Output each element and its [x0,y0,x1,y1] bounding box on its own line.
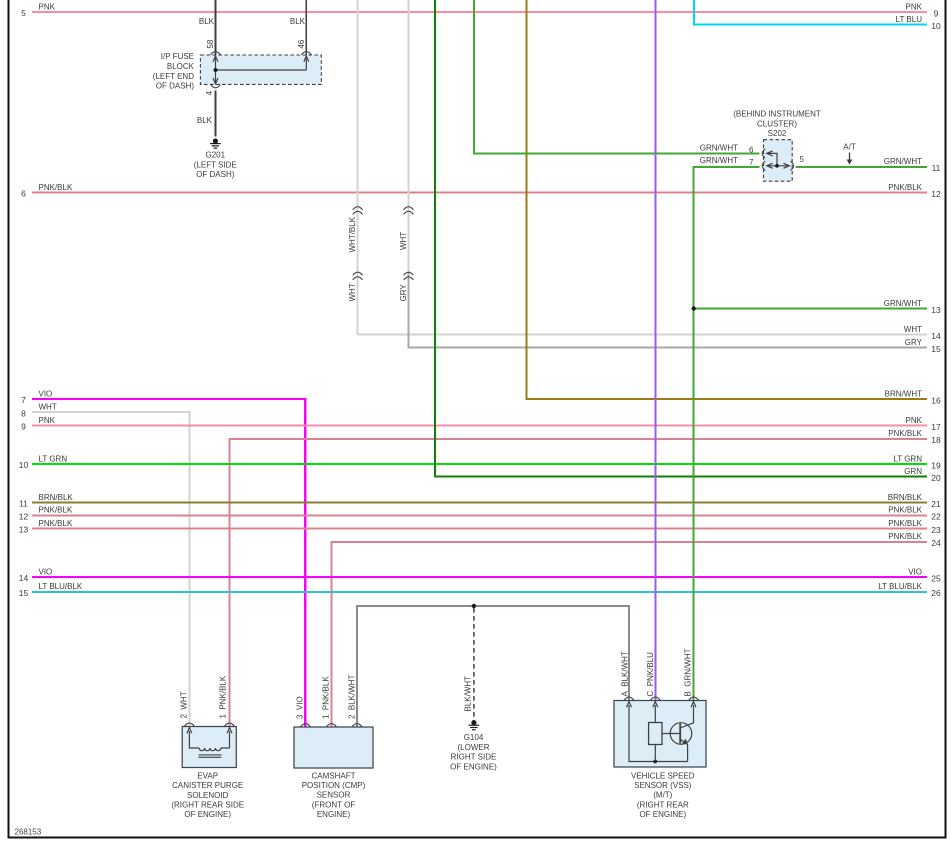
node 7 number left [21,395,26,405]
svg-text:A/T: A/T [843,143,856,152]
node 9 label left [39,416,56,425]
VSS label line 3 [653,791,672,800]
inline connector WHT upper [404,207,414,215]
VSS label line 2 [634,781,692,790]
svg-text:WHT: WHT [904,325,922,334]
node 9 number left [21,422,26,432]
wire 15-26 LT BLU/BLK [32,591,927,593]
node 23 number right [931,525,941,535]
svg-text:GRN/WHT: GRN/WHT [884,299,922,308]
ground G104 label line 2 [458,743,490,752]
node 13 number right [931,305,941,315]
fuse block pin 46 connector [301,52,311,55]
ground G104 label line 3 [451,753,497,762]
label BLK wire 46 [290,17,306,26]
svg-text:PNK/BLK: PNK/BLK [888,532,922,541]
wire 10-19 LT GRN [32,463,927,465]
wire BLK/WHT dashed to G104 [473,608,475,719]
CMP pin 2 connector [352,724,362,727]
node 12 label left [39,506,73,515]
node 6 number left [21,189,26,199]
svg-text:BLK: BLK [197,116,213,125]
VSS pin B label [684,648,693,696]
EVAP solenoid coil [199,748,221,751]
node 5 number left [21,8,26,18]
diagram number 268153 [15,828,42,837]
fuse block label line 2 [167,62,195,71]
fuse block pin 4 label [205,90,214,95]
G104 BLK/WHT label [463,676,472,712]
svg-text:VEHICLE SPEED: VEHICLE SPEED [631,771,695,780]
svg-text:15: 15 [931,344,941,354]
node 15 number right [931,344,941,354]
wire BLK to G201 [215,91,217,137]
svg-text:BLK: BLK [290,17,306,26]
wire 13-23 PNK/BLK [32,528,927,530]
EVAP label line 5 [184,810,231,819]
wire 14-25 VIO [32,576,927,578]
fuse block pin 4 connector [211,85,221,88]
svg-text:G201: G201 [206,151,226,160]
label WHT lower [348,283,357,301]
ground G104 symbol [469,720,480,730]
svg-text:7: 7 [21,395,26,405]
VSS box [614,701,706,768]
node 9 label right [906,2,923,11]
fuse block pin 4 arrow [213,78,218,84]
wire 18 PNK/BLK from EVAP pin 1 [230,439,928,727]
svg-text:PNK/BLK: PNK/BLK [39,506,73,515]
wire 16 BRN/WHT [527,0,927,399]
CMP label line 2 [302,781,366,790]
border bottom [8,837,947,839]
svg-text:S202: S202 [768,129,787,138]
svg-text:SENSOR: SENSOR [317,791,351,800]
ground G104 label line 1 [464,733,484,742]
transistor base bar [679,724,681,744]
wire PNK/BLU to VSS pin C [654,0,656,700]
svg-text:12: 12 [931,189,941,199]
svg-text:CAMSHAFT: CAMSHAFT [312,771,356,780]
wire GRN/WHT to S202 pin 6 [474,0,759,153]
VSS pin B connector [689,697,699,700]
node 25 number right [931,573,941,583]
svg-text:OF ENGINE): OF ENGINE) [450,762,497,771]
svg-text:3 VIO: 3 VIO [295,696,304,719]
EVAP label line 3 [187,791,229,800]
node 14 label left [39,567,53,576]
svg-text:PNK/BLK: PNK/BLK [888,429,922,438]
border right [945,0,947,839]
inline connector GRY lower [404,272,414,280]
svg-text:5: 5 [21,8,26,18]
fuse block pin 58 label [206,39,215,48]
ground G201 label line 3 [196,170,235,179]
svg-text:(LEFT END: (LEFT END [153,72,194,81]
svg-text:C PNK/BLU: C PNK/BLU [646,652,655,697]
svg-text:268153: 268153 [15,828,42,837]
node 8 label left [39,403,57,412]
ground G104 label line 4 [450,762,497,771]
svg-text:(BEHIND INSTRUMENT: (BEHIND INSTRUMENT [733,110,821,119]
svg-text:22: 22 [931,512,941,522]
transistor Q VSS circle [670,723,692,745]
node 15 label left [39,582,83,591]
svg-text:(LOWER: (LOWER [458,743,490,752]
svg-text:LT BLU: LT BLU [896,15,923,24]
node 21 label right [888,493,923,502]
svg-text:WHT: WHT [348,283,357,301]
svg-text:VIO: VIO [908,567,922,576]
node 18 number right [931,435,941,445]
node 20 label right [904,467,922,476]
svg-text:ENGINE): ENGINE) [317,810,351,819]
svg-text:1 PNK/BLK: 1 PNK/BLK [321,676,330,719]
junction node wire 13 [692,306,696,310]
node 8 number left [21,408,26,418]
svg-text:PNK/BLK: PNK/BLK [888,506,922,515]
svg-text:G104: G104 [464,733,484,742]
svg-text:LT BLU/BLK: LT BLU/BLK [878,582,922,591]
node 16 number right [931,395,941,405]
wire 6-12 PNK/BLK [32,192,927,194]
svg-text:PNK/BLK: PNK/BLK [888,183,922,192]
svg-text:8: 8 [21,408,26,418]
svg-text:2 WHT: 2 WHT [179,691,188,718]
wire BLK/WHT CMP pin 2 to VSS pin A [357,606,629,727]
label GRN/WHT pin 7 [700,156,738,165]
CMP label line 5 [317,810,351,819]
svg-text:11: 11 [19,499,28,509]
fuse block label line 1 [161,52,194,61]
label BLK G201 [197,116,213,125]
svg-text:9: 9 [934,8,939,18]
svg-text:15: 15 [19,588,29,598]
svg-text:(LEFT SIDE: (LEFT SIDE [194,160,237,169]
svg-text:CANISTER PURGE: CANISTER PURGE [172,781,243,790]
svg-text:I/P FUSE: I/P FUSE [161,52,194,61]
svg-text:CLUSTER): CLUSTER) [757,119,797,128]
CMP sensor box [294,727,373,768]
svg-text:WHT: WHT [39,403,57,412]
svg-text:PNK/BLK: PNK/BLK [888,519,922,528]
EVAP pin 1 label [218,675,227,718]
S202 location label line 2 [757,119,797,128]
node 20 number right [931,473,941,483]
svg-text:16: 16 [931,395,941,405]
node 11 label right [884,157,922,166]
svg-text:BRN/BLK: BRN/BLK [39,493,74,502]
wire 11-21 BRN/BLK [32,502,927,504]
transistor base line [662,733,680,735]
svg-text:6: 6 [21,189,26,199]
svg-text:11: 11 [932,163,941,173]
EVAP pin 2 arrow [187,728,192,734]
node 24 label right [888,532,922,541]
svg-text:LT GRN: LT GRN [893,454,922,463]
transistor emitter arrowhead [682,739,688,745]
VSS pin C connector [650,697,660,700]
svg-text:RIGHT SIDE: RIGHT SIDE [451,753,497,762]
label A/T [843,143,856,152]
EVAP coil core bars [199,755,222,757]
wire 24 PNK/BLK from CMP pin 1 [332,542,928,727]
svg-text:LT BLU/BLK: LT BLU/BLK [39,582,83,591]
VSS pin A arrow [627,702,632,708]
svg-text:10: 10 [19,460,29,470]
EVAP internal wiring [189,731,229,748]
node 15 label right [905,338,923,347]
node 14 number left [19,573,29,583]
wire 5-9 PNK [32,11,927,13]
node 19 number right [931,460,941,470]
ground G201 symbol [210,138,221,148]
VSS pin A label [620,651,629,696]
S202 pin 6 number [749,145,754,154]
label BLK wire 58 [199,17,215,26]
wire GRY to 15 [409,272,928,347]
EVAP solenoid box [182,727,236,768]
svg-text:5: 5 [800,155,805,164]
svg-text:OF ENGINE): OF ENGINE) [184,810,231,819]
VSS pin A connector [624,697,634,700]
svg-text:OF ENGINE): OF ENGINE) [639,810,686,819]
svg-text:2 BLK/WHT: 2 BLK/WHT [347,674,356,719]
S202 pin 6 arrow [767,151,773,156]
CMP pin 1 label [321,676,330,719]
svg-text:PNK: PNK [906,416,923,425]
wire BLK to fuse block pin 58 [215,0,217,55]
S202 splice box [764,140,793,182]
node 26 label right [878,582,922,591]
svg-text:(FRONT OF: (FRONT OF [312,800,356,809]
svg-text:PNK/BLK: PNK/BLK [39,183,73,192]
CMP pin 3 label [295,696,304,719]
S202 internal wiring [767,153,790,165]
svg-text:13: 13 [931,305,941,315]
svg-text:BLK/WHT: BLK/WHT [463,676,472,712]
svg-text:24: 24 [931,538,941,548]
svg-text:17: 17 [931,422,941,432]
node 22 label right [888,506,922,515]
node 18 label right [888,429,922,438]
ground G201 label line 1 [206,151,226,160]
svg-text:4: 4 [205,90,214,95]
node 22 number right [931,512,941,522]
S202 location label line 1 [733,110,821,119]
node 25 label right [908,567,922,576]
svg-text:12: 12 [19,511,29,521]
CMP label line 3 [317,791,351,800]
svg-text:GRN/WHT: GRN/WHT [884,157,922,166]
S202 pin 5 connector [791,161,794,170]
fuse block junction node [214,68,218,72]
node 13 number left [19,525,29,535]
node 14 label right [904,325,922,334]
label GRY [399,284,408,302]
CMP pin 2 label [347,674,356,719]
svg-text:9: 9 [21,422,26,432]
svg-text:GRN/WHT: GRN/WHT [700,156,738,165]
svg-text:VIO: VIO [39,567,53,576]
wire 7 VIO to CMP pin 3 [32,399,305,727]
svg-text:58: 58 [206,39,215,48]
svg-text:25: 25 [931,573,941,583]
node 12 number right [931,189,941,199]
svg-text:10: 10 [931,21,941,31]
svg-text:GRN: GRN [904,467,922,476]
EVAP pin 2 connector [185,723,195,726]
svg-text:OF DASH): OF DASH) [196,170,235,179]
VSS internal wiring pin A rail [629,705,688,762]
node 26 number right [931,588,941,598]
resistor VSS [649,723,662,745]
svg-text:(M/T): (M/T) [653,791,672,800]
node 11 number left [19,499,28,509]
VSS pin C label [646,652,655,697]
node 10 number left [19,460,29,470]
S202 pin 5 arrow [784,163,790,168]
svg-text:BRN/WHT: BRN/WHT [885,389,922,398]
I/P fuse block box [200,55,321,84]
transistor collector to pin B [680,705,693,728]
node 10 label left [39,454,68,463]
svg-text:14: 14 [19,573,29,583]
node 10 label right [896,15,923,24]
VSS junction node [653,760,657,764]
svg-text:14: 14 [931,331,941,341]
label WHT second wire [399,232,408,250]
svg-text:PNK: PNK [39,416,56,425]
VSS pin C to resistor [654,705,656,762]
S202 pin 5 number [800,155,805,164]
S202 designator [768,129,787,138]
node 9 number right [934,8,939,18]
wire 9-17 PNK [32,424,927,426]
svg-text:LT GRN: LT GRN [39,454,68,463]
svg-text:SENSOR (VSS): SENSOR (VSS) [634,781,692,790]
svg-text:GRN/WHT: GRN/WHT [700,144,738,153]
node 13 label left [39,519,73,528]
transistor emitter [680,739,687,762]
EVAP label line 1 [197,771,218,780]
svg-text:BLK: BLK [199,17,215,26]
node 10 number right [931,21,941,31]
svg-text:BLOCK: BLOCK [167,62,195,71]
VSS label line 4 [637,800,689,809]
wire 11 GRN/WHT from S202 pin 5 [796,166,928,168]
wire WHT vertical upper segment [408,0,410,272]
svg-text:A BLK/WHT: A BLK/WHT [620,651,629,696]
svg-text:WHT/BLK: WHT/BLK [348,216,357,252]
node 17 number right [931,422,941,432]
fuse block pin 58 connector [211,52,221,55]
wire 12-22 PNK/BLK [32,514,927,516]
wire BLK to fuse block pin 46 [305,0,307,55]
wire 20 GRN [435,0,927,477]
svg-text:B GRN/WHT: B GRN/WHT [684,648,693,696]
svg-text:PNK/BLK: PNK/BLK [39,519,73,528]
border left [8,0,10,839]
svg-text:BRN/BLK: BRN/BLK [888,493,923,502]
node 12 number left [19,511,29,521]
VSS label line 5 [639,810,686,819]
fuse block pin 46 label [297,39,306,48]
svg-text:EVAP: EVAP [197,771,218,780]
fuse block label line 3 [153,72,194,81]
fuse block internal wiring [216,56,307,84]
svg-text:23: 23 [931,525,941,535]
svg-text:1 PNK/BLK: 1 PNK/BLK [218,675,227,718]
wire 8 WHT to EVAP pin 2 [32,412,189,727]
svg-text:18: 18 [931,435,941,445]
EVAP pin 1 connector [225,723,235,726]
EVAP pin 1 arrow [227,728,232,734]
node 15 number left [19,588,29,598]
CMP pin 3 connector [301,724,311,727]
S202 junction node [775,164,779,168]
svg-text:OF DASH): OF DASH) [156,82,195,91]
node 11 number right [932,163,941,173]
CMP label line 1 [312,771,356,780]
node 23 label right [888,519,922,528]
node 13 label right [884,299,922,308]
node 19 label right [893,454,922,463]
svg-text:7: 7 [749,158,754,167]
wire 13 GRN/WHT branch [694,308,927,310]
svg-text:WHT: WHT [399,232,408,250]
VSS pin B arrow [691,702,696,708]
svg-text:6: 6 [749,145,754,154]
S202 pin 7 number [749,158,754,167]
EVAP pin 2 label [179,691,188,718]
svg-text:VIO: VIO [39,389,53,398]
A/T arrow [847,153,853,165]
svg-text:21: 21 [931,499,941,509]
node 21 number right [931,499,941,509]
svg-text:46: 46 [297,39,306,48]
ground G201 label line 2 [194,160,237,169]
svg-text:(RIGHT REAR: (RIGHT REAR [637,800,689,809]
node 24 number right [931,538,941,548]
S202 pin 7 connector [762,161,765,170]
svg-text:(RIGHT REAR SIDE: (RIGHT REAR SIDE [171,801,244,810]
CMP pin 1 connector [327,724,337,727]
EVAP label line 2 [172,781,243,790]
node 12 label right [888,183,922,192]
svg-text:GRY: GRY [905,338,923,347]
svg-text:GRY: GRY [399,284,408,302]
node 11 label left [39,493,74,502]
S202 pin 7 arrow [767,163,773,168]
inline connector WHT/BLK upper [353,207,363,215]
label GRN/WHT pin 6 [700,144,738,153]
label WHT/BLK [348,216,357,252]
inline connector WHT/BLK lower [353,272,363,280]
node 5 label left [39,2,56,11]
S202 pin 6 connector [762,149,765,158]
node 16 label right [885,389,922,398]
fuse block pin 58 arrow [213,56,218,62]
svg-text:PNK: PNK [39,2,56,11]
fuse block label line 4 [156,82,195,91]
VSS pin C arrow [653,702,658,708]
wire 10 LT BLU [694,0,927,25]
svg-text:20: 20 [931,473,941,483]
junction node BLK/WHT [472,604,476,608]
node 14 number right [931,331,941,341]
node 7 label left [39,389,53,398]
